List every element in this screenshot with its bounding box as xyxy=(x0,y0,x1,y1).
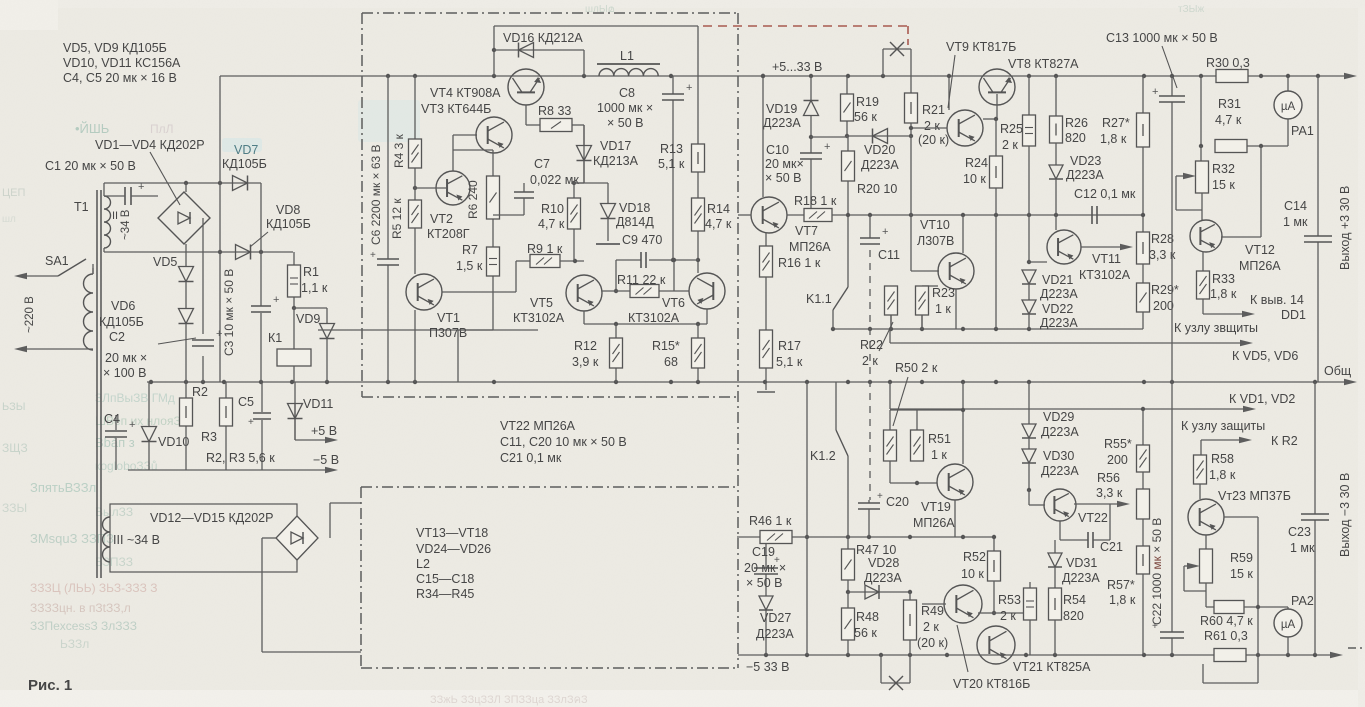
svg-text:К узлу звщиты: К узлу звщиты xyxy=(1174,321,1258,335)
transformer T1 core xyxy=(97,190,101,578)
capacitor C11 xyxy=(860,215,888,244)
resistor R46 xyxy=(760,531,792,544)
svg-text:5,1 к: 5,1 к xyxy=(658,157,685,171)
svg-text:1,8 к: 1,8 к xyxy=(1210,287,1237,301)
label VT8 xyxy=(1008,57,1079,71)
callout VD8 xyxy=(250,232,268,247)
resistor R13 xyxy=(692,144,705,172)
svg-text:Д223А: Д223А xyxy=(763,116,801,130)
resistor R31 xyxy=(1215,140,1288,153)
svg-text:R48: R48 xyxy=(856,610,879,624)
label VD17 xyxy=(593,139,639,168)
wire C2 column xyxy=(202,218,204,382)
svg-text:R2, R3 5,6 к: R2, R3 5,6 к xyxy=(206,451,275,465)
label C10 xyxy=(765,143,804,185)
resistor R7 xyxy=(487,247,500,276)
svg-text:С2: С2 xyxy=(109,330,125,344)
diode VD22 xyxy=(1022,284,1036,329)
svg-text:Д223А: Д223А xyxy=(1041,464,1079,478)
svg-text:+: + xyxy=(877,491,883,502)
label K VD1 VD2 xyxy=(1229,392,1295,406)
svg-text:К выв. 14: К выв. 14 xyxy=(1250,293,1304,307)
label C12 xyxy=(1074,187,1136,201)
resistor R54 xyxy=(1049,588,1062,620)
label VT2 xyxy=(427,212,470,241)
svg-text:С15—С18: С15—С18 xyxy=(416,572,474,586)
resistor R54 column xyxy=(1054,567,1056,588)
capacitor C13 xyxy=(1152,86,1185,102)
svg-text:+: + xyxy=(138,181,144,193)
svg-text:С4: С4 xyxy=(104,412,120,426)
svg-text:2 к: 2 к xyxy=(923,620,939,634)
resistor R16 column xyxy=(765,233,767,246)
svg-text:1,8 к: 1,8 к xyxy=(1100,132,1127,146)
svg-text:VT7: VT7 xyxy=(795,224,818,238)
meter PA1 xyxy=(1274,78,1302,146)
wire VT5 VT6 emitters xyxy=(584,309,707,326)
wire R56-R57 xyxy=(1142,519,1144,546)
wire R50 R51 bottoms xyxy=(890,461,937,485)
svg-text:K1.1: K1.1 xyxy=(806,292,832,306)
svg-text:VT22 МП26А: VT22 МП26А xyxy=(500,419,576,433)
resistor R52 column xyxy=(992,535,996,551)
svg-text:4,7 к: 4,7 к xyxy=(1215,113,1242,127)
resistor R20 column xyxy=(847,136,849,151)
callout R50 xyxy=(893,377,908,426)
arrow bottom rail xyxy=(1330,652,1343,658)
svg-text:(20 к): (20 к) xyxy=(918,133,949,147)
label ~34 V winding II xyxy=(120,209,132,240)
svg-text:+: + xyxy=(370,250,376,261)
module box right dash-dot border x=738 xyxy=(737,13,739,668)
arrow mains input bottom xyxy=(14,346,27,352)
label K1 xyxy=(268,331,282,345)
svg-text:+: + xyxy=(686,82,692,94)
svg-text:VD8: VD8 xyxy=(276,203,300,217)
svg-text:1,5 к: 1,5 к xyxy=(456,259,483,273)
svg-text:П307В: П307В xyxy=(429,326,467,340)
resistor R16 xyxy=(760,246,773,277)
svg-text:R7: R7 xyxy=(462,243,478,257)
transistor VT7 xyxy=(738,74,787,233)
wire K VD5 VD6 line xyxy=(890,329,1253,346)
svg-text:R23: R23 xyxy=(932,286,955,300)
svg-text:(20 к): (20 к) xyxy=(917,636,948,650)
svg-text:1 к: 1 к xyxy=(935,302,951,316)
svg-text:820: 820 xyxy=(1065,131,1086,145)
svg-text:µА: µА xyxy=(1281,101,1296,113)
capacitor C8 xyxy=(662,82,692,100)
svg-text:РА2: РА2 xyxy=(1291,594,1314,608)
label K uzlu zashity lower xyxy=(1181,419,1265,433)
svg-text:Общ: Общ xyxy=(1324,364,1351,378)
label R6 vertical xyxy=(466,180,480,219)
label R23 xyxy=(932,286,955,316)
label C21 xyxy=(1100,540,1123,554)
svg-text:VD6: VD6 xyxy=(111,299,135,313)
wire mid rail y=537 xyxy=(737,535,994,539)
svg-text:R9 1 к: R9 1 к xyxy=(527,242,563,256)
svg-text:VT22: VT22 xyxy=(1078,511,1108,525)
svg-text:68: 68 xyxy=(664,355,678,369)
label VD7 xyxy=(222,143,267,171)
capacitor C20 xyxy=(858,491,883,537)
label R32 xyxy=(1212,162,1235,192)
wire R4-R5 junction xyxy=(414,168,416,200)
relay K1 coil xyxy=(277,349,311,382)
resistor R14 xyxy=(692,198,705,231)
resistor R57 xyxy=(1137,546,1150,574)
wire column x=807 xyxy=(805,382,809,655)
svg-text:+: + xyxy=(1152,86,1158,98)
wire K R2 arrow xyxy=(1201,437,1252,455)
resistor R23 xyxy=(916,286,929,329)
resistor R4 xyxy=(409,139,422,168)
transformer T1 winding II xyxy=(104,183,111,252)
capacitor C9 branch xyxy=(614,258,698,293)
svg-text:КД105Б: КД105Б xyxy=(99,315,144,329)
svg-text:КД105Б: КД105Б xyxy=(266,217,311,231)
resistor R8 xyxy=(526,105,584,183)
svg-text:1000 мк ×: 1000 мк × xyxy=(597,101,653,115)
resistor R27 column xyxy=(1142,76,1144,113)
transistor VT10 xyxy=(938,253,974,289)
svg-text:С11, С20 10 мк × 50 В: С11, С20 10 мк × 50 В xyxy=(500,435,627,449)
transistor VT9 xyxy=(909,78,983,146)
wire bridge2 left output xyxy=(262,538,361,652)
wire R57 to rail xyxy=(1142,574,1144,655)
label R12 xyxy=(572,339,599,369)
diode bridge VD1-VD4 xyxy=(158,183,210,267)
label K R2 xyxy=(1271,434,1298,448)
capacitor C14 column xyxy=(1317,76,1319,382)
svg-text:R3: R3 xyxy=(201,430,217,444)
wire R24 down xyxy=(995,188,997,329)
label VD22 xyxy=(1040,302,1078,330)
svg-text:ЬЗЗл: ЬЗЗл xyxy=(60,637,89,651)
svg-text:R16 1 к: R16 1 к xyxy=(778,256,821,270)
svg-text:× 50 В: × 50 В xyxy=(607,116,644,130)
svg-text:L2: L2 xyxy=(416,557,430,571)
module box2 dash-dot border (lower converter module) xyxy=(361,487,737,668)
wire K VD1 VD2 line xyxy=(890,382,1256,412)
resistor R53 column xyxy=(994,582,1030,613)
svg-text:R30 0,3: R30 0,3 xyxy=(1206,56,1250,70)
resistor R21 xyxy=(905,93,918,123)
label R60 xyxy=(1200,614,1253,628)
transistor VT22 xyxy=(1029,489,1076,521)
label K1.1 xyxy=(806,292,832,306)
label R3 xyxy=(201,430,217,444)
svg-text:С12 0,1 мк: С12 0,1 мк xyxy=(1074,187,1136,201)
label C19 xyxy=(744,545,786,590)
wire R14 down to C9 node xyxy=(696,231,700,273)
label C3 vertical xyxy=(222,269,236,356)
label R17 xyxy=(776,339,803,369)
wire common rail (Общ) xyxy=(147,381,1352,383)
svg-text:С14: С14 xyxy=(1284,199,1307,213)
svg-text:VD22: VD22 xyxy=(1042,302,1073,316)
resistor R10 column xyxy=(573,183,575,261)
label VD9 xyxy=(296,312,320,326)
svg-text:R31: R31 xyxy=(1218,97,1241,111)
diode VD29 xyxy=(1022,424,1036,438)
label VD5 xyxy=(153,255,177,269)
svg-text:VD18: VD18 xyxy=(619,201,650,215)
svg-text:R1: R1 xyxy=(303,265,319,279)
wire R21 bottom xyxy=(909,123,913,138)
label module box2 contents xyxy=(416,526,491,601)
label R7 xyxy=(456,243,483,273)
wire R16-R17 xyxy=(765,277,767,330)
resistor R1 xyxy=(288,265,301,297)
svg-text:Выход −3 30 В: Выход −3 30 В xyxy=(1338,473,1352,557)
label R29 xyxy=(1151,283,1179,313)
svg-text:R53: R53 xyxy=(998,593,1021,607)
label R16 xyxy=(778,256,821,270)
label VD19 xyxy=(763,102,801,130)
svg-text:~220 В: ~220 В xyxy=(24,296,36,333)
svg-text:R29*: R29* xyxy=(1151,283,1179,297)
svg-text:1,1 к: 1,1 к xyxy=(301,281,328,295)
diode VD11 xyxy=(288,403,303,440)
label VD27 xyxy=(756,611,794,641)
resistor R30 (bus series) xyxy=(1216,70,1248,83)
resistor R12 xyxy=(610,338,623,368)
svg-text:× 50 В: × 50 В xyxy=(765,171,802,185)
label C20 xyxy=(886,495,909,509)
label +5V xyxy=(311,424,337,438)
svg-text:С21: С21 xyxy=(1100,540,1123,554)
capacitor C21 xyxy=(1060,504,1110,548)
callout VT20 xyxy=(957,625,968,672)
diode VD28 xyxy=(848,585,912,599)
svg-text:+: + xyxy=(248,417,254,428)
wire left column x=766 xyxy=(765,537,767,655)
diode VD6 xyxy=(179,282,194,382)
svg-text:Д223А: Д223А xyxy=(1040,287,1078,301)
label VT12 xyxy=(1239,243,1281,273)
capacitor C5 column xyxy=(261,382,263,470)
label C11 xyxy=(878,248,900,262)
label VD10 xyxy=(158,435,189,449)
resistor R56 pot xyxy=(1137,489,1150,519)
label R10 xyxy=(538,202,565,231)
svg-text:+5 В: +5 В xyxy=(311,424,337,438)
relay linkage red dashed line xyxy=(703,26,908,45)
label C13 xyxy=(1106,31,1218,45)
svg-text:VT6: VT6 xyxy=(662,296,685,310)
svg-text:Л307В: Л307В xyxy=(917,234,954,248)
transformer winding III box xyxy=(110,504,297,572)
capacitor C6 column xyxy=(387,76,389,382)
svg-text:VT2: VT2 xyxy=(430,212,453,226)
capacitor C6 xyxy=(370,250,399,265)
contact K1.2 xyxy=(836,382,848,537)
svg-text:ЗЗжЬ ЗЗцЗЗЛ ЗПЗЗца ЗЗлЗ: ЗЗжЬ ЗЗцЗЗЛ ЗПЗЗца ЗЗлЗคЗ xyxy=(430,694,588,706)
svg-text:РА1: РА1 xyxy=(1291,124,1314,138)
diode VD7 xyxy=(233,176,248,191)
svg-text:VT1: VT1 xyxy=(437,311,460,325)
svg-text:R27*: R27* xyxy=(1102,116,1130,130)
wire bus left drop x=220 xyxy=(218,76,222,382)
wire R32 to VT12 xyxy=(1201,193,1203,220)
svg-text:R24: R24 xyxy=(965,156,988,170)
arrow +5V xyxy=(325,437,338,443)
label PA2 xyxy=(1291,594,1314,608)
label VD30 xyxy=(1041,449,1079,478)
svg-text:К1: К1 xyxy=(268,331,282,345)
svg-text:R49: R49 xyxy=(921,604,944,618)
svg-text:R33: R33 xyxy=(1212,272,1235,286)
wire VT10 collector xyxy=(962,215,964,253)
label +5..33V xyxy=(772,60,822,74)
svg-text:R4 3 к: R4 3 к xyxy=(392,133,406,168)
svg-text:10 к: 10 к xyxy=(963,172,986,186)
resistor R29 xyxy=(1137,283,1150,312)
svg-text:С6 2200 мк × 63 В: С6 2200 мк × 63 В xyxy=(369,144,383,245)
svg-text:1 к: 1 к xyxy=(931,448,947,462)
label VT19 xyxy=(913,500,955,530)
label R28 xyxy=(1149,232,1176,262)
wire VT23 emitter line xyxy=(1203,517,1258,683)
svg-text:+: + xyxy=(273,294,279,306)
svg-text:5,1 к: 5,1 к xyxy=(776,355,803,369)
label R25 xyxy=(1000,122,1023,152)
diode VD27 xyxy=(0,0,1,1)
label C7 xyxy=(530,157,579,187)
label ~220 V xyxy=(24,296,36,333)
svg-text:+: + xyxy=(824,141,830,153)
resistor R13 column xyxy=(697,26,699,144)
capacitor C1 xyxy=(104,181,158,205)
node dots common rail xyxy=(149,380,1317,384)
svg-text:R32: R32 xyxy=(1212,162,1235,176)
diode bridge VD12-VD15 xyxy=(276,516,318,560)
resistor R26 column xyxy=(1055,76,1057,116)
label C6 vertical xyxy=(369,144,383,245)
svg-text:SA1: SA1 xyxy=(45,254,69,268)
svg-text:0,022 мк: 0,022 мк xyxy=(530,173,579,187)
capacitor C19 xyxy=(754,555,780,574)
label R61 xyxy=(1204,629,1248,643)
svg-text:VT8 КТ827А: VT8 КТ827А xyxy=(1008,57,1079,71)
resistor R50 xyxy=(884,430,897,461)
transistor VT2 xyxy=(415,171,470,205)
label R31 xyxy=(1215,97,1242,127)
svg-text:С23: С23 xyxy=(1288,525,1311,539)
svg-text:МП26А: МП26А xyxy=(913,516,955,530)
callout C13 xyxy=(1162,46,1177,88)
svg-text:VD20: VD20 xyxy=(864,143,895,157)
svg-text:−5 В: −5 В xyxy=(313,453,339,467)
svg-text:Vт23 МП37Б: Vт23 МП37Б xyxy=(1218,489,1291,503)
switch SA1 xyxy=(26,259,93,276)
svg-text:II: II xyxy=(112,210,118,222)
label C2 xyxy=(103,330,147,380)
svg-text:T1: T1 xyxy=(74,200,89,214)
svg-text:20 мк ×: 20 мк × xyxy=(744,561,786,575)
transistor VT23 xyxy=(1188,499,1224,535)
svg-text:VT4 КТ908А: VT4 КТ908А xyxy=(430,86,501,100)
transistor VT8 xyxy=(979,69,1015,119)
diode VD30 xyxy=(1022,438,1036,492)
diode VD23 xyxy=(1049,143,1063,179)
resistor R32 pot xyxy=(1176,161,1209,210)
transistor VT21 xyxy=(977,626,1015,664)
callout C2 xyxy=(158,338,196,344)
svg-text:VD10, VD11 КС156А: VD10, VD11 КС156А xyxy=(63,56,181,70)
label VT3 xyxy=(421,102,491,116)
node dots protection rail xyxy=(831,327,1031,331)
wire VT1 base line xyxy=(442,261,530,292)
svg-text:+5...33 В: +5...33 В xyxy=(772,60,822,74)
resistor R26 xyxy=(1050,116,1063,143)
label C14 xyxy=(1283,199,1308,229)
svg-text:ЦЕП: ЦЕП xyxy=(2,187,25,199)
svg-text:КД213А: КД213А xyxy=(593,154,639,168)
svg-text:Д814Д: Д814Д xyxy=(616,215,654,229)
label VT9 xyxy=(946,40,1016,54)
svg-text:К узлу защиты: К узлу защиты xyxy=(1181,419,1265,433)
diode VD21 xyxy=(1022,270,1036,284)
wire R21 to VT10 base xyxy=(911,136,939,271)
callout VT9 xyxy=(948,55,955,108)
wire VT19 emitter down xyxy=(954,500,956,537)
label K1.2 xyxy=(810,449,836,463)
svg-text:R25: R25 xyxy=(1000,122,1023,136)
resistor R27 xyxy=(1137,113,1150,147)
label Obsh xyxy=(1324,364,1351,378)
label K VD5 VD6 xyxy=(1232,349,1298,363)
svg-text:Д223А: Д223А xyxy=(756,627,794,641)
contact K1.1 upper with cross xyxy=(883,42,911,93)
label R58 xyxy=(1209,452,1236,482)
resistor R3 column xyxy=(225,382,227,470)
svg-text:R60 4,7 к: R60 4,7 к xyxy=(1200,614,1253,628)
svg-text:VD16 КД212А: VD16 КД212А xyxy=(503,31,583,45)
svg-text:~34 В: ~34 В xyxy=(120,209,132,240)
svg-text:R19: R19 xyxy=(856,95,879,109)
svg-text:R17: R17 xyxy=(778,339,801,353)
resistor R59 pot xyxy=(1184,549,1213,591)
wire VT20 emitter to VT21 base xyxy=(978,612,994,614)
wire VT7 emitter line R18 xyxy=(787,214,804,216)
svg-text:VD5, VD9 КД105Б: VD5, VD9 КД105Б xyxy=(63,41,167,55)
resistor R22 column xyxy=(890,286,892,329)
svg-text:R51: R51 xyxy=(928,432,951,446)
svg-text:С20: С20 xyxy=(886,495,909,509)
resistor R19 xyxy=(841,94,854,121)
svg-text:КТ3102А: КТ3102А xyxy=(628,311,680,325)
label VD21 xyxy=(1040,273,1078,301)
resistor R25 xyxy=(1023,115,1036,146)
wire R20 to K1.1 contact xyxy=(847,181,849,287)
svg-text:ЗЗЗЗцн. в пЗtЗЗ,л: ЗЗЗЗцн. в пЗtЗЗ,л xyxy=(30,601,131,615)
capacitor C9 xyxy=(641,252,646,268)
label R14 xyxy=(705,202,732,231)
svg-text:3,3 к: 3,3 к xyxy=(1096,486,1123,500)
svg-text:VD21: VD21 xyxy=(1042,273,1073,287)
label C23 xyxy=(1288,525,1315,555)
label R53 xyxy=(998,593,1021,623)
svg-text:МП26А: МП26А xyxy=(1239,259,1281,273)
svg-text:820: 820 xyxy=(1063,609,1084,623)
svg-text:R52: R52 xyxy=(963,550,986,564)
wire VT12 emitter loop xyxy=(1221,146,1261,237)
capacitor C4 column xyxy=(115,415,117,470)
wire VT11 emitter arrow xyxy=(1081,244,1133,250)
